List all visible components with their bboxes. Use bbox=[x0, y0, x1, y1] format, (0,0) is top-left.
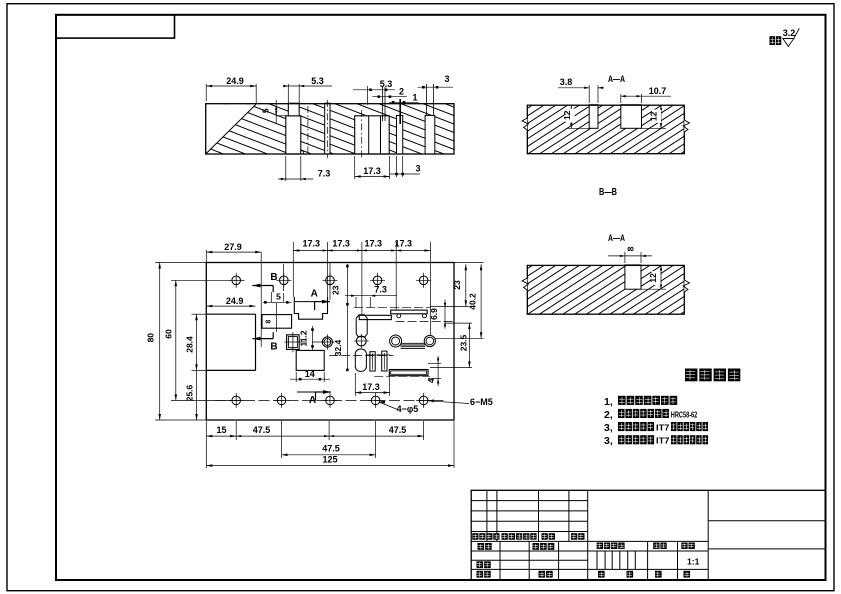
svg-text:17.3: 17.3 bbox=[362, 382, 380, 392]
svg-text:4−φ5: 4−φ5 bbox=[397, 404, 419, 414]
svg-text:125: 125 bbox=[322, 455, 337, 465]
svg-text:B: B bbox=[270, 342, 277, 353]
svg-text:12: 12 bbox=[648, 273, 658, 283]
svg-text:B—B: B—B bbox=[599, 186, 617, 198]
svg-text:12: 12 bbox=[562, 110, 572, 120]
svg-text:17.3: 17.3 bbox=[365, 239, 383, 249]
svg-text:HRC58-62: HRC58-62 bbox=[671, 409, 698, 419]
svg-text:A—A: A—A bbox=[608, 233, 625, 243]
svg-text:2,: 2, bbox=[604, 409, 613, 421]
svg-text:10.7: 10.7 bbox=[649, 86, 667, 96]
svg-text:B: B bbox=[270, 272, 277, 283]
svg-text:27.9: 27.9 bbox=[224, 242, 242, 252]
svg-text:A: A bbox=[311, 289, 318, 300]
svg-text:17.3: 17.3 bbox=[332, 239, 350, 249]
svg-text:15: 15 bbox=[216, 425, 226, 435]
svg-text:24.9: 24.9 bbox=[226, 296, 244, 306]
svg-text:5.3: 5.3 bbox=[311, 76, 324, 86]
svg-text:17.3: 17.3 bbox=[303, 239, 321, 249]
svg-text:3.2: 3.2 bbox=[783, 28, 796, 38]
svg-text:1:1: 1:1 bbox=[687, 557, 700, 567]
svg-text:3,: 3, bbox=[604, 422, 613, 434]
svg-text:40.2: 40.2 bbox=[468, 293, 478, 310]
svg-text:A—A: A—A bbox=[608, 74, 625, 84]
svg-text:32.4: 32.4 bbox=[333, 339, 343, 356]
svg-text:3: 3 bbox=[444, 74, 449, 84]
svg-text:1,: 1, bbox=[604, 396, 613, 408]
svg-text:17.3: 17.3 bbox=[363, 166, 381, 176]
svg-text:47.5: 47.5 bbox=[322, 444, 340, 454]
svg-text:23.5: 23.5 bbox=[459, 334, 469, 351]
svg-text:12: 12 bbox=[648, 111, 658, 121]
svg-text:47.5: 47.5 bbox=[389, 425, 407, 435]
svg-text:14: 14 bbox=[305, 369, 315, 379]
svg-text:8: 8 bbox=[265, 320, 272, 324]
svg-text:8: 8 bbox=[626, 246, 636, 251]
svg-text:5.3: 5.3 bbox=[380, 79, 393, 89]
svg-text:5: 5 bbox=[261, 108, 271, 113]
svg-text:3.8: 3.8 bbox=[560, 77, 573, 87]
svg-text:5: 5 bbox=[276, 292, 281, 302]
svg-text:3: 3 bbox=[415, 164, 420, 174]
svg-text:23: 23 bbox=[331, 285, 341, 295]
svg-text:11.2: 11.2 bbox=[299, 330, 309, 346]
svg-text:17.3: 17.3 bbox=[395, 239, 413, 249]
svg-text:80: 80 bbox=[146, 333, 156, 343]
svg-text:24.9: 24.9 bbox=[226, 76, 244, 86]
svg-text:47.5: 47.5 bbox=[253, 425, 271, 435]
svg-text:1: 1 bbox=[412, 93, 417, 103]
svg-text:7.3: 7.3 bbox=[318, 169, 331, 179]
svg-text:6−M5: 6−M5 bbox=[470, 397, 493, 407]
svg-text:4: 4 bbox=[426, 378, 436, 383]
svg-text:25.6: 25.6 bbox=[185, 384, 195, 401]
svg-text:23: 23 bbox=[452, 280, 462, 290]
svg-text:2: 2 bbox=[399, 87, 404, 97]
svg-text:28.4: 28.4 bbox=[185, 336, 195, 353]
svg-text:7.3: 7.3 bbox=[374, 285, 387, 295]
svg-text:3,: 3, bbox=[604, 435, 613, 447]
svg-text:IT7: IT7 bbox=[656, 436, 670, 446]
svg-text:IT7: IT7 bbox=[656, 423, 670, 433]
svg-text:60: 60 bbox=[164, 329, 174, 339]
svg-text:6.9: 6.9 bbox=[429, 308, 439, 320]
